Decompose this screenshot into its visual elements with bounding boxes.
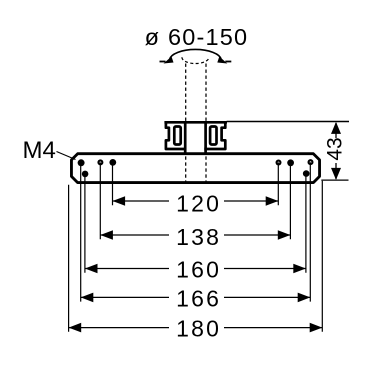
svg-text:120: 120	[176, 190, 221, 216]
svg-text:M4: M4	[23, 137, 56, 164]
svg-text:138: 138	[176, 224, 221, 250]
svg-text:180: 180	[176, 316, 221, 342]
svg-text:43: 43	[324, 137, 347, 160]
svg-text:ø 60-150: ø 60-150	[145, 24, 249, 50]
svg-text:160: 160	[176, 257, 221, 283]
svg-text:166: 166	[176, 285, 221, 311]
